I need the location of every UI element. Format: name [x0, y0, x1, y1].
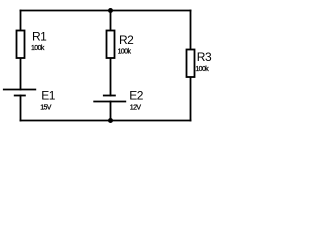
svg-text:100k: 100k [195, 66, 209, 73]
svg-text:E2: E2 [129, 88, 144, 102]
svg-text:12V: 12V [130, 105, 142, 112]
svg-text:100k: 100k [31, 45, 45, 52]
svg-text:R2: R2 [119, 33, 134, 47]
svg-text:15V: 15V [40, 104, 52, 111]
svg-text:E1: E1 [41, 88, 56, 102]
svg-text:100k: 100k [118, 48, 132, 55]
svg-text:R1: R1 [32, 30, 47, 44]
svg-text:R3: R3 [197, 50, 212, 64]
